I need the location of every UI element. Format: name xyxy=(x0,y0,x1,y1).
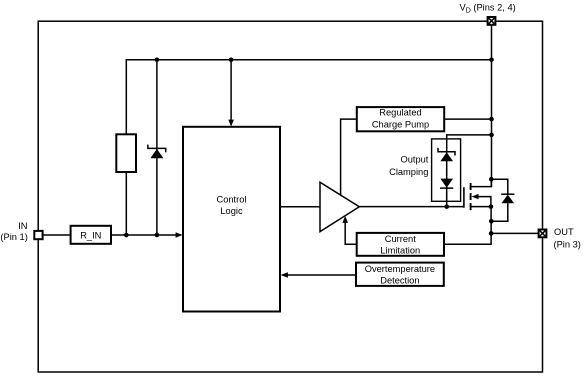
pin OUT terminal (crossed box) xyxy=(539,230,547,238)
pin IN terminal square xyxy=(34,231,42,239)
wire clamp chain xyxy=(447,135,492,207)
transistor channel segments xyxy=(470,183,472,210)
pin OUT label xyxy=(554,227,581,250)
node source junction xyxy=(489,204,494,209)
wire top rail to control logic (arrow down) xyxy=(230,60,232,121)
node top-rail / zener junction xyxy=(155,58,160,63)
svg-text:Detection: Detection xyxy=(380,276,419,286)
current limitation box xyxy=(357,233,444,256)
transistor source connection xyxy=(471,206,491,208)
svg-text:Output: Output xyxy=(400,155,428,165)
svg-text:Control: Control xyxy=(217,194,247,204)
node diode / out rail junction xyxy=(489,219,494,224)
node VD rail / clamp junction xyxy=(489,133,494,138)
transistor power MOSFET: gate bar xyxy=(463,187,465,208)
resistor R_IN xyxy=(71,226,111,244)
wire IN to R_IN xyxy=(43,234,71,236)
wire to OUT pin xyxy=(491,232,538,234)
node VD rail / drain junction xyxy=(489,177,494,182)
driver triangle xyxy=(320,182,359,231)
node top-rail / VD rail junction xyxy=(489,58,494,63)
wire out rail vertical down to current limitation xyxy=(444,207,491,245)
zener clamp upper xyxy=(438,148,455,161)
node out junction xyxy=(489,231,494,236)
wire top VD rail (left branch down to resistor) xyxy=(126,60,491,135)
wire charge pump to VD rail xyxy=(444,118,491,120)
svg-text:Regulated: Regulated xyxy=(379,108,421,118)
output clamping label xyxy=(389,155,429,177)
svg-text:Current: Current xyxy=(385,234,416,244)
wire triangle output to gate xyxy=(359,206,464,208)
svg-text:Limitation: Limitation xyxy=(380,246,420,256)
svg-text:OUT: OUT xyxy=(554,227,574,237)
wire control logic to triangle xyxy=(280,206,320,208)
wire R_IN to control logic (arrow right) xyxy=(111,234,177,236)
node input rail / resistor junction xyxy=(124,233,129,238)
wire zener branch vertical xyxy=(156,60,158,235)
wire charge pump to driver triangle xyxy=(341,119,357,195)
pin VD terminal (crossed box) xyxy=(488,17,496,25)
node gate wire / clamp chain junction xyxy=(444,204,449,209)
transistor drain connection xyxy=(471,179,492,186)
diode bottom wire xyxy=(491,203,508,221)
diode body/freewheel xyxy=(501,194,514,203)
svg-text:VD (Pins 2, 4): VD (Pins 2, 4) xyxy=(460,3,516,15)
svg-text:Clamping: Clamping xyxy=(389,167,428,177)
node input rail / zener junction xyxy=(155,233,160,238)
wire VD rail vertical xyxy=(491,25,493,187)
node VD rail / charge pump junction xyxy=(489,117,494,122)
resistor (input pull-up, unlabeled) xyxy=(116,134,136,172)
transistor body arrow xyxy=(475,197,491,207)
overtemperature detection box xyxy=(356,263,444,286)
pin IN label xyxy=(0,221,27,242)
node top-rail / control-logic branch junction xyxy=(229,58,234,63)
svg-text:(Pin 1): (Pin 1) xyxy=(0,232,27,242)
svg-text:Charge Pump: Charge Pump xyxy=(372,120,429,130)
zener diode (input protection) xyxy=(148,145,166,159)
wire current limitation to triangle (arrow up) xyxy=(345,222,357,245)
wire overtemperature to control logic (arrow left) xyxy=(287,274,357,276)
output clamping box xyxy=(432,139,461,201)
svg-text:Logic: Logic xyxy=(220,206,243,216)
svg-text:(Pin 3): (Pin 3) xyxy=(554,239,581,249)
control logic U1 xyxy=(183,127,280,312)
diode body/freewheel top wire xyxy=(491,179,508,194)
svg-text:Overtemperature: Overtemperature xyxy=(365,264,435,274)
regulated charge pump box xyxy=(357,107,444,131)
diode clamp lower xyxy=(440,179,453,189)
wire resistor bottom to input rail xyxy=(125,172,127,235)
svg-text:R_IN: R_IN xyxy=(80,230,101,240)
svg-text:IN: IN xyxy=(18,221,27,231)
